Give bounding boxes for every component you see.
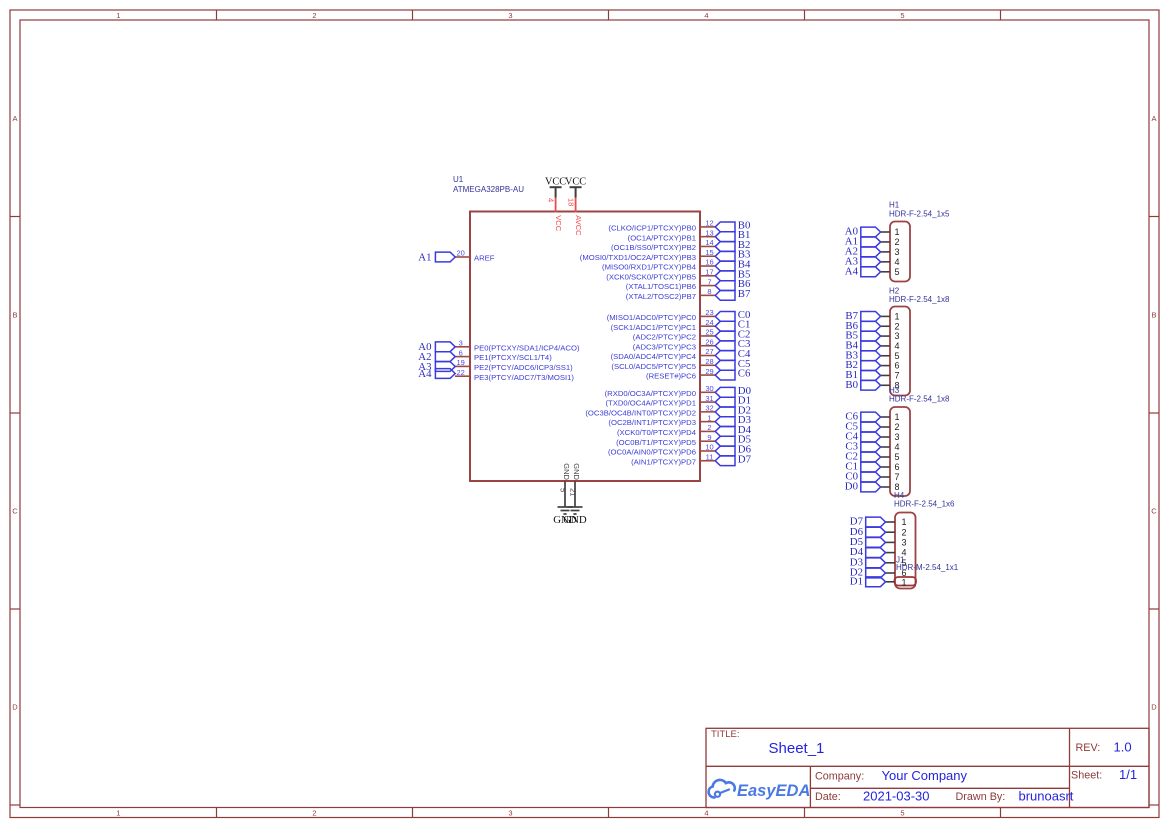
net flag C2 at IC xyxy=(715,328,750,340)
net flag C1 at IC xyxy=(715,319,750,331)
net flag B6 at IC xyxy=(715,278,751,290)
svg-text:1.0: 1.0 xyxy=(1114,739,1132,754)
net flag C6 at H3 xyxy=(845,411,880,423)
svg-text:2021-03-30: 2021-03-30 xyxy=(863,788,930,803)
H4 pin 6 wire + number xyxy=(886,568,907,578)
svg-text:(OC0B/T1/PTCXY)PD5: (OC0B/T1/PTCXY)PD5 xyxy=(616,438,696,447)
power symbol VCC net at pin 4 xyxy=(545,177,566,198)
svg-text:brunoasrt: brunoasrt xyxy=(1019,788,1074,803)
svg-text:4: 4 xyxy=(895,341,900,351)
svg-text:1: 1 xyxy=(902,517,907,527)
power pin 4 (VCC) red pin + labels xyxy=(547,197,564,232)
svg-text:A: A xyxy=(1151,114,1156,123)
svg-text:PE1(PTCXY/SCL1/T4): PE1(PTCXY/SCL1/T4) xyxy=(474,353,552,362)
pin 19 (PE2) wire + number + name xyxy=(455,358,573,372)
ground pin 5 (GND) gray pin + labels xyxy=(559,463,572,507)
H1 pin 5 wire + number xyxy=(881,267,900,277)
svg-text:9: 9 xyxy=(707,433,711,442)
pin 16 (PB4) wire + number + name xyxy=(602,258,715,272)
svg-text:2: 2 xyxy=(895,321,900,331)
svg-text:(OC3B/OC4B/INT0/PTCXY)PD2: (OC3B/OC4B/INT0/PTCXY)PD2 xyxy=(585,408,696,417)
svg-text:(OC0A/AIN0/PTCXY)PD6: (OC0A/AIN0/PTCXY)PD6 xyxy=(608,448,696,457)
svg-text:GND: GND xyxy=(562,463,571,480)
svg-text:4: 4 xyxy=(704,11,708,20)
svg-text:4: 4 xyxy=(704,809,708,818)
svg-text:5: 5 xyxy=(895,452,900,462)
net flag D2 at IC xyxy=(715,404,751,416)
svg-text:U1: U1 xyxy=(453,175,464,184)
svg-text:1: 1 xyxy=(895,312,900,322)
svg-text:PE0(PTCXY/SDA1/ICP4/ACO): PE0(PTCXY/SDA1/ICP4/ACO) xyxy=(474,343,580,352)
net flag D0 at IC xyxy=(715,385,751,397)
H3 pin 5 wire + number xyxy=(881,452,900,462)
net flag C3 at H3 xyxy=(845,441,880,453)
power symbol VCC net at pin 18 xyxy=(565,177,586,198)
H4 pin 4 wire + number xyxy=(886,548,907,558)
svg-text:26: 26 xyxy=(705,337,713,346)
svg-text:(ADC3/PTCY)PC3: (ADC3/PTCY)PC3 xyxy=(633,342,696,351)
H1 pin 4 wire + number xyxy=(881,257,900,267)
svg-text:PE2(PTCY/ADC6/ICP3/SS1): PE2(PTCY/ADC6/ICP3/SS1) xyxy=(474,363,573,372)
svg-text:8: 8 xyxy=(707,287,711,296)
svg-text:(MISO1/ADC0/PTCY)PC0: (MISO1/ADC0/PTCY)PC0 xyxy=(607,313,696,322)
H2 pin 2 wire + number xyxy=(881,321,900,331)
svg-text:3: 3 xyxy=(895,331,900,341)
net flag D6 at IC xyxy=(715,443,751,455)
connector H3 HDR-F-2.54_1x8 body xyxy=(890,407,910,496)
svg-text:C: C xyxy=(1151,507,1157,516)
svg-text:(OC1A/PTCXY)PB1: (OC1A/PTCXY)PB1 xyxy=(628,233,696,242)
svg-text:2: 2 xyxy=(312,809,316,818)
svg-text:25: 25 xyxy=(705,328,713,337)
net flag D5 at IC xyxy=(715,434,751,446)
H2 pin 6 wire + number xyxy=(881,361,900,371)
svg-text:6: 6 xyxy=(895,361,900,371)
svg-text:HDR-F-2.54_1x8: HDR-F-2.54_1x8 xyxy=(889,395,950,404)
svg-text:D: D xyxy=(1151,703,1157,712)
svg-text:5: 5 xyxy=(900,809,904,818)
net flag B5 at H2 xyxy=(845,330,880,342)
connector H4 HDR-F-2.54_1x6 body xyxy=(895,513,916,589)
svg-text:H1: H1 xyxy=(889,201,900,210)
net flag C2 at H3 xyxy=(845,451,880,463)
svg-text:21: 21 xyxy=(569,488,578,496)
svg-text:20: 20 xyxy=(457,249,465,258)
EasyEDA logo xyxy=(709,780,811,800)
svg-text:B0: B0 xyxy=(845,379,858,391)
svg-text:1: 1 xyxy=(902,577,907,587)
pin 6 (PE1) wire + number + name xyxy=(455,348,552,362)
pin 11 (PD7) wire + number + name xyxy=(631,452,715,466)
svg-text:6: 6 xyxy=(459,348,463,357)
svg-text:3: 3 xyxy=(459,339,463,348)
net flag D1 at J1 xyxy=(850,575,886,587)
net flag B4 at H2 xyxy=(845,340,880,352)
svg-text:30: 30 xyxy=(705,384,713,393)
connector H2 HDR-F-2.54_1x8 body xyxy=(890,307,910,396)
H2 reference + value labels xyxy=(889,286,950,304)
svg-text:14: 14 xyxy=(705,238,713,247)
svg-text:HDR-M-2.54_1x1: HDR-M-2.54_1x1 xyxy=(896,563,959,572)
svg-text:1: 1 xyxy=(895,227,900,237)
J1 pin 1 wire + number xyxy=(886,577,907,587)
svg-text:D1: D1 xyxy=(850,575,863,587)
H4 reference + value labels xyxy=(894,491,955,509)
net flag A0 xyxy=(418,341,455,353)
pin 2 (PD4) wire + number + name xyxy=(617,423,715,437)
svg-text:3: 3 xyxy=(895,432,900,442)
net flag A0 at H1 xyxy=(845,226,881,238)
H3 pin 1 wire + number xyxy=(881,412,900,422)
svg-text:(OC2B/INT1/PTCXY)PD3: (OC2B/INT1/PTCXY)PD3 xyxy=(608,418,696,427)
net flag D3 at H4 xyxy=(850,556,886,568)
net flag B0 at IC xyxy=(715,219,750,231)
H4 pin 3 wire + number xyxy=(886,538,907,548)
svg-text:(XTAL2/TOSC2)PB7: (XTAL2/TOSC2)PB7 xyxy=(626,292,696,301)
svg-text:Company:: Company: xyxy=(815,771,864,783)
H2 pin 5 wire + number xyxy=(881,351,900,361)
svg-text:10: 10 xyxy=(705,443,713,452)
H3 pin 8 wire + number xyxy=(881,482,900,492)
svg-text:13: 13 xyxy=(705,228,713,237)
svg-text:5: 5 xyxy=(559,488,568,492)
J1 reference + value labels xyxy=(896,555,959,572)
svg-text:2: 2 xyxy=(895,237,900,247)
svg-text:6: 6 xyxy=(895,462,900,472)
svg-text:A4: A4 xyxy=(418,368,432,380)
net flag A1 xyxy=(418,251,455,263)
svg-text:1: 1 xyxy=(707,413,711,422)
net flag C0 at IC xyxy=(715,309,750,321)
svg-text:31: 31 xyxy=(705,394,713,403)
svg-text:28: 28 xyxy=(705,357,713,366)
pin 29 (PC6) wire + number + name xyxy=(646,367,715,381)
svg-text:Drawn By:: Drawn By: xyxy=(956,791,1006,803)
net flag B1 at H2 xyxy=(845,369,880,381)
svg-text:3: 3 xyxy=(508,11,512,20)
net flag D4 at IC xyxy=(715,424,751,436)
svg-text:VCC: VCC xyxy=(554,215,563,231)
svg-text:(SCL0/ADC5/PTCY)PC5: (SCL0/ADC5/PTCY)PC5 xyxy=(611,362,696,371)
svg-text:B7: B7 xyxy=(738,288,751,300)
net flag A2 at H1 xyxy=(845,246,881,258)
svg-text:4: 4 xyxy=(895,257,900,267)
svg-text:29: 29 xyxy=(705,367,713,376)
connector H1 HDR-F-2.54_1x5 body xyxy=(890,222,910,282)
net flag D3 at IC xyxy=(715,414,751,426)
svg-text:1/1: 1/1 xyxy=(1119,767,1137,782)
svg-text:1: 1 xyxy=(895,412,900,422)
pin 14 (PB2) wire + number + name xyxy=(611,238,715,252)
svg-text:HDR-F-2.54_1x8: HDR-F-2.54_1x8 xyxy=(889,295,950,304)
IC U1 ATMEGA328PB-AU body xyxy=(470,212,700,482)
net flag B4 at IC xyxy=(715,259,751,271)
pin 30 (PD0) wire + number + name xyxy=(605,384,715,398)
svg-text:A1: A1 xyxy=(418,251,431,263)
pin 23 (PC0) wire + number + name xyxy=(607,308,715,322)
svg-text:AREF: AREF xyxy=(474,254,495,263)
net flag B7 at H2 xyxy=(845,310,880,322)
pin 10 (PD6) wire + number + name xyxy=(608,443,715,457)
svg-text:B: B xyxy=(12,310,17,319)
svg-text:12: 12 xyxy=(705,219,713,228)
H1 pin 1 wire + number xyxy=(881,227,900,237)
svg-text:GND: GND xyxy=(572,463,581,480)
svg-text:2: 2 xyxy=(902,527,907,537)
pin 8 (PB7) wire + number + name xyxy=(626,287,715,301)
H2 pin 7 wire + number xyxy=(881,371,900,381)
H2 pin 4 wire + number xyxy=(881,341,900,351)
H4 pin 1 wire + number xyxy=(886,517,907,527)
net flag D1 at IC xyxy=(715,395,751,407)
net flag A4 at H1 xyxy=(845,265,881,277)
net flag D7 at IC xyxy=(715,453,751,465)
net flag B2 at H2 xyxy=(845,359,880,371)
svg-text:VCC: VCC xyxy=(565,177,586,188)
net flag D5 at H4 xyxy=(850,536,886,548)
net flag C0 at H3 xyxy=(845,471,880,483)
power pin 18 (AVCC) red pin + labels xyxy=(567,197,584,236)
net flag D4 at H4 xyxy=(850,546,886,558)
svg-text:7: 7 xyxy=(895,371,900,381)
pin 31 (PD1) wire + number + name xyxy=(605,394,715,408)
pin 3 (PE0) wire + number + name xyxy=(455,339,580,353)
svg-text:4: 4 xyxy=(547,198,556,202)
svg-text:C: C xyxy=(12,507,18,516)
pin 28 (PC5) wire + number + name xyxy=(611,357,715,371)
svg-text:(OC1B/SS0/PTCXY)PB2: (OC1B/SS0/PTCXY)PB2 xyxy=(611,243,696,252)
svg-text:22: 22 xyxy=(457,368,465,377)
H4 pin 5 wire + number xyxy=(886,558,907,568)
svg-text:Date:: Date: xyxy=(815,791,841,803)
svg-text:B: B xyxy=(1151,310,1156,319)
svg-text:(MISO0/RXD1/PTCXY)PB4: (MISO0/RXD1/PTCXY)PB4 xyxy=(602,263,697,272)
svg-text:Sheet_1: Sheet_1 xyxy=(769,740,825,757)
net flag B3 at H2 xyxy=(845,349,880,361)
svg-text:2: 2 xyxy=(895,422,900,432)
svg-text:7: 7 xyxy=(895,472,900,482)
net flag A3 at H1 xyxy=(845,255,881,267)
net flag B5 at IC xyxy=(715,268,750,280)
svg-text:Your Company: Your Company xyxy=(882,768,968,783)
svg-text:VCC: VCC xyxy=(545,177,566,188)
svg-text:H2: H2 xyxy=(889,286,900,295)
svg-text:PE3(PTCY/ADC7/T3/MOSI1): PE3(PTCY/ADC7/T3/MOSI1) xyxy=(474,373,574,382)
H2 pin 8 wire + number xyxy=(881,380,900,390)
H2 pin 3 wire + number xyxy=(881,331,900,341)
svg-text:23: 23 xyxy=(705,308,713,317)
net flag A3 xyxy=(418,361,455,373)
pin 7 (PB6) wire + number + name xyxy=(626,277,715,291)
pin 27 (PC4) wire + number + name xyxy=(611,347,715,361)
U1 reference designator label xyxy=(453,175,524,194)
svg-text:TITLE:: TITLE: xyxy=(711,729,740,740)
svg-text:(SCK1/ADC1/PTCY)PC1: (SCK1/ADC1/PTCY)PC1 xyxy=(611,323,696,332)
net flag B1 at IC xyxy=(715,229,750,241)
pin 32 (PD2) wire + number + name xyxy=(585,404,715,418)
H3 pin 7 wire + number xyxy=(881,472,900,482)
H1 reference + value labels xyxy=(889,201,950,219)
net flag C4 at IC xyxy=(715,348,751,360)
svg-text:2: 2 xyxy=(707,423,711,432)
svg-text:5: 5 xyxy=(900,11,904,20)
ground symbol at pin 21 xyxy=(563,507,587,526)
svg-text:ATMEGA328PB-AU: ATMEGA328PB-AU xyxy=(453,185,524,194)
svg-text:32: 32 xyxy=(705,404,713,413)
net flag A2 xyxy=(418,351,455,363)
svg-text:C6: C6 xyxy=(738,368,751,380)
svg-text:3: 3 xyxy=(895,247,900,257)
svg-text:27: 27 xyxy=(705,347,713,356)
H1 pin 2 wire + number xyxy=(881,237,900,247)
net flag C4 at H3 xyxy=(845,431,880,443)
svg-text:24: 24 xyxy=(705,318,713,327)
pin 24 (PC1) wire + number + name xyxy=(611,318,715,332)
H3 pin 3 wire + number xyxy=(881,432,900,442)
svg-text:1: 1 xyxy=(116,809,120,818)
net flag B2 at IC xyxy=(715,239,750,251)
connector J1 HDR-M-2.54_1x1 body xyxy=(895,577,917,586)
net flag A4 xyxy=(418,368,455,380)
svg-text:3: 3 xyxy=(508,809,512,818)
svg-text:Sheet:: Sheet: xyxy=(1071,770,1102,782)
svg-text:(ADC2/PTCY)PC2: (ADC2/PTCY)PC2 xyxy=(633,333,696,342)
svg-text:H4: H4 xyxy=(894,491,905,500)
H4 pin 2 wire + number xyxy=(886,527,907,537)
svg-text:(AIN1/PTCXY)PD7: (AIN1/PTCXY)PD7 xyxy=(631,457,696,466)
svg-text:GND: GND xyxy=(563,514,587,526)
net flag B0 at H2 xyxy=(845,379,880,391)
svg-text:HDR-F-2.54_1x6: HDR-F-2.54_1x6 xyxy=(894,500,955,509)
H3 pin 4 wire + number xyxy=(881,442,900,452)
svg-text:5: 5 xyxy=(895,351,900,361)
net flag D2 at H4 xyxy=(850,567,886,579)
svg-text:A: A xyxy=(12,114,17,123)
net flag D6 at H4 xyxy=(850,526,886,538)
svg-text:15: 15 xyxy=(705,248,713,257)
svg-text:(XCK0/SCK0/PTCXY)PB5: (XCK0/SCK0/PTCXY)PB5 xyxy=(606,272,696,281)
pin 17 (PB5) wire + number + name xyxy=(606,268,715,282)
svg-text:REV:: REV: xyxy=(1076,742,1101,754)
svg-text:(SDA0/ADC4/PTCY)PC4: (SDA0/ADC4/PTCY)PC4 xyxy=(611,352,697,361)
svg-text:5: 5 xyxy=(895,267,900,277)
net flag D0 at H3 xyxy=(845,481,881,493)
svg-text:16: 16 xyxy=(705,258,713,267)
net flag B3 at IC xyxy=(715,249,750,261)
svg-text:3: 3 xyxy=(902,538,907,548)
svg-text:AVCC: AVCC xyxy=(574,215,583,236)
H1 pin 3 wire + number xyxy=(881,247,900,257)
net flag C1 at H3 xyxy=(845,461,880,473)
pin 20 (AREF) wire + number + name xyxy=(455,249,495,263)
pin 26 (PC3) wire + number + name xyxy=(633,337,715,351)
svg-text:19: 19 xyxy=(457,358,465,367)
svg-text:4: 4 xyxy=(895,442,900,452)
pin 9 (PD5) wire + number + name xyxy=(616,433,715,447)
pin 12 (PB0) wire + number + name xyxy=(608,219,715,233)
net flag B6 at H2 xyxy=(845,320,880,332)
svg-text:7: 7 xyxy=(707,277,711,286)
svg-text:(MOSI0/TXD1/OC2A/PTCXY)PB3: (MOSI0/TXD1/OC2A/PTCXY)PB3 xyxy=(580,253,696,262)
svg-text:D: D xyxy=(12,703,18,712)
svg-text:(TXD0/OC4A/PTCXY)PD1: (TXD0/OC4A/PTCXY)PD1 xyxy=(605,399,696,408)
H3 pin 2 wire + number xyxy=(881,422,900,432)
H3 reference + value labels xyxy=(889,386,950,404)
svg-text:EasyEDA: EasyEDA xyxy=(737,782,810,800)
svg-text:D0: D0 xyxy=(845,481,858,493)
svg-text:(CLKO/ICP1/PTCXY)PB0: (CLKO/ICP1/PTCXY)PB0 xyxy=(608,224,696,233)
svg-text:1: 1 xyxy=(116,11,120,20)
svg-text:(RXD0/OC3A/PTCXY)PD0: (RXD0/OC3A/PTCXY)PD0 xyxy=(605,389,696,398)
H2 pin 1 wire + number xyxy=(881,312,900,322)
net flag C3 at IC xyxy=(715,338,750,350)
ground pin 21 (GND) gray pin + labels xyxy=(569,463,582,507)
svg-text:11: 11 xyxy=(706,452,714,461)
pin 25 (PC2) wire + number + name xyxy=(633,328,715,342)
pin 13 (PB1) wire + number + name xyxy=(628,228,715,242)
svg-text:2: 2 xyxy=(312,11,316,20)
net flag A1 at H1 xyxy=(845,236,881,248)
pin 15 (PB3) wire + number + name xyxy=(580,248,715,262)
title block xyxy=(706,728,1149,807)
svg-text:(XCK0/T0/PTCXY)PD4: (XCK0/T0/PTCXY)PD4 xyxy=(617,428,697,437)
svg-text:H3: H3 xyxy=(889,386,900,395)
H3 pin 6 wire + number xyxy=(881,462,900,472)
net flag C5 at IC xyxy=(715,358,750,370)
svg-text:D7: D7 xyxy=(738,453,752,465)
ground symbol at pin 5 xyxy=(553,507,577,526)
svg-text:HDR-F-2.54_1x5: HDR-F-2.54_1x5 xyxy=(889,209,950,218)
svg-text:18: 18 xyxy=(567,198,576,206)
svg-text:A4: A4 xyxy=(845,265,859,277)
pin 1 (PD3) wire + number + name xyxy=(608,413,715,427)
net flag C6 at IC xyxy=(715,368,751,380)
net flag D7 at H4 xyxy=(850,516,886,528)
svg-text:(XTAL1/TOSC1)PB6: (XTAL1/TOSC1)PB6 xyxy=(626,282,696,291)
svg-text:(RESET#)PC6: (RESET#)PC6 xyxy=(646,372,696,381)
svg-text:17: 17 xyxy=(705,268,713,277)
net flag B7 at IC xyxy=(715,288,751,300)
pin 22 (PE3) wire + number + name xyxy=(455,368,574,382)
net flag C5 at H3 xyxy=(845,421,880,433)
